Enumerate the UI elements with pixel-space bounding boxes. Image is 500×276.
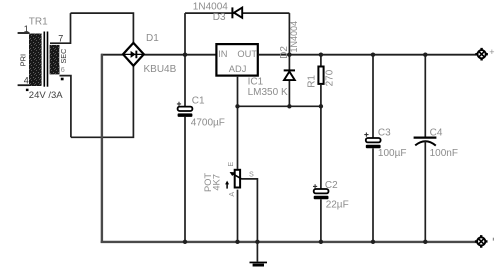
wire D3 top	[185, 12, 289, 14]
svg-text:270: 270	[324, 69, 335, 86]
junction dot ADJ/pot	[235, 104, 239, 108]
bridge rectifier D1	[123, 43, 144, 66]
wire ADJ rail	[238, 105, 321, 107]
svg-text:24V /3A: 24V /3A	[29, 90, 63, 101]
junction dot ADJ/R1	[319, 104, 323, 108]
junction dot rail/ground	[255, 240, 259, 244]
svg-text:1N4004: 1N4004	[193, 2, 228, 13]
junction dot OUT/R1	[319, 53, 323, 57]
phasing dot primary	[26, 89, 29, 91]
svg-text:C4: C4	[430, 127, 443, 138]
svg-text:4: 4	[24, 75, 29, 85]
wire C4 upper	[424, 55, 426, 137]
svg-text:R1: R1	[306, 75, 317, 88]
wire pin6 stub	[60, 76, 71, 138]
svg-text:OUT: OUT	[237, 49, 257, 59]
svg-text:LM350 K: LM350 K	[248, 87, 288, 98]
svg-text:+: +	[489, 47, 494, 57]
svg-text:TR1: TR1	[29, 16, 48, 27]
svg-text:C1: C1	[192, 95, 205, 106]
wire C4 lower	[424, 141, 426, 242]
svg-text:PRI: PRI	[18, 54, 27, 67]
wire minus vertical	[101, 54, 103, 243]
transformer TR1 primary winding	[29, 34, 42, 87]
svg-text:7: 7	[58, 34, 63, 44]
phasing dot secondary	[61, 78, 64, 81]
terminal minus	[475, 235, 488, 248]
wire OUT rail	[259, 54, 477, 56]
wire R1 bottom	[320, 85, 322, 106]
svg-text:S: S	[249, 169, 254, 178]
junction dot OUT/C4	[423, 53, 427, 57]
wire C1 branch upper	[184, 55, 186, 107]
wire POT E vertical	[237, 106, 239, 169]
potentiometer POT 4K7	[225, 170, 242, 189]
junction dot rail/C3	[371, 240, 375, 244]
resistor R1	[318, 67, 323, 84]
junction dot rail/C4	[423, 240, 427, 244]
transformer core	[43, 32, 45, 87]
wire pin6 to bridge bottom	[71, 66, 133, 138]
ground	[250, 242, 268, 267]
svg-text:100nF: 100nF	[430, 148, 458, 159]
wire bridge right to IC IN	[144, 54, 216, 56]
svg-text:4700µF: 4700µF	[191, 118, 225, 129]
capacitor C2	[313, 184, 329, 199]
label minus tick	[493, 238, 494, 241]
svg-text:4K7: 4K7	[211, 174, 221, 191]
diode D3	[232, 7, 242, 18]
transformer TR1 secondary winding	[50, 45, 60, 75]
junction dot rail/C2	[319, 240, 323, 244]
svg-text:6: 6	[61, 65, 65, 74]
capacitor C1	[177, 102, 193, 117]
wire C1 branch lower	[184, 117, 186, 242]
wire pin7 stub	[50, 13, 71, 43]
svg-text:C2: C2	[325, 180, 338, 191]
wire D3 right down	[288, 13, 290, 55]
wire C2 upper	[320, 106, 322, 189]
svg-text:IC1: IC1	[248, 77, 264, 88]
svg-text:IN: IN	[218, 49, 227, 59]
junction dot ADJ/D2	[287, 104, 291, 108]
IC1 regulator box	[216, 44, 257, 76]
wire D3 branch up	[184, 13, 186, 55]
svg-text:D1: D1	[146, 33, 159, 44]
capacitor C3	[364, 133, 380, 149]
svg-text:22µF: 22µF	[326, 200, 349, 211]
junction dot OUT/D2	[287, 53, 291, 57]
terminal plus	[475, 48, 488, 61]
svg-text:1N4004: 1N4004	[289, 21, 299, 53]
junction dot rail/potA	[235, 240, 239, 244]
label SEC	[59, 49, 68, 66]
wire C3 lower	[372, 148, 374, 242]
junction dot IN node	[183, 53, 187, 57]
svg-text:E: E	[226, 162, 235, 167]
wire pin1 stub	[18, 32, 30, 34]
wire pin4 stub	[18, 84, 30, 86]
wire C2 lower	[320, 199, 322, 242]
wire wiper S	[241, 179, 257, 242]
wire R1 top	[320, 55, 322, 66]
junction dot OUT/C3	[371, 53, 375, 57]
wire POT A down	[237, 190, 239, 242]
wire C3 upper	[372, 55, 374, 139]
wire bottom rail	[101, 241, 477, 243]
wire ADJ pin down	[237, 77, 239, 107]
diode D2	[284, 70, 295, 80]
wire D2 vertical	[288, 55, 290, 107]
capacitor C4	[414, 138, 437, 146]
svg-text:A: A	[227, 192, 236, 197]
svg-text:KBU4B: KBU4B	[144, 64, 177, 75]
svg-text:C3: C3	[378, 127, 391, 138]
svg-text:100µF: 100µF	[378, 148, 407, 159]
wire bridge left to minus rail	[101, 54, 124, 56]
svg-text:D3: D3	[213, 12, 226, 23]
svg-text:ADJ: ADJ	[229, 64, 247, 74]
junction dot rail/C1	[183, 240, 187, 244]
wire top loop to bridge	[71, 13, 134, 44]
svg-text:SEC: SEC	[59, 49, 68, 64]
